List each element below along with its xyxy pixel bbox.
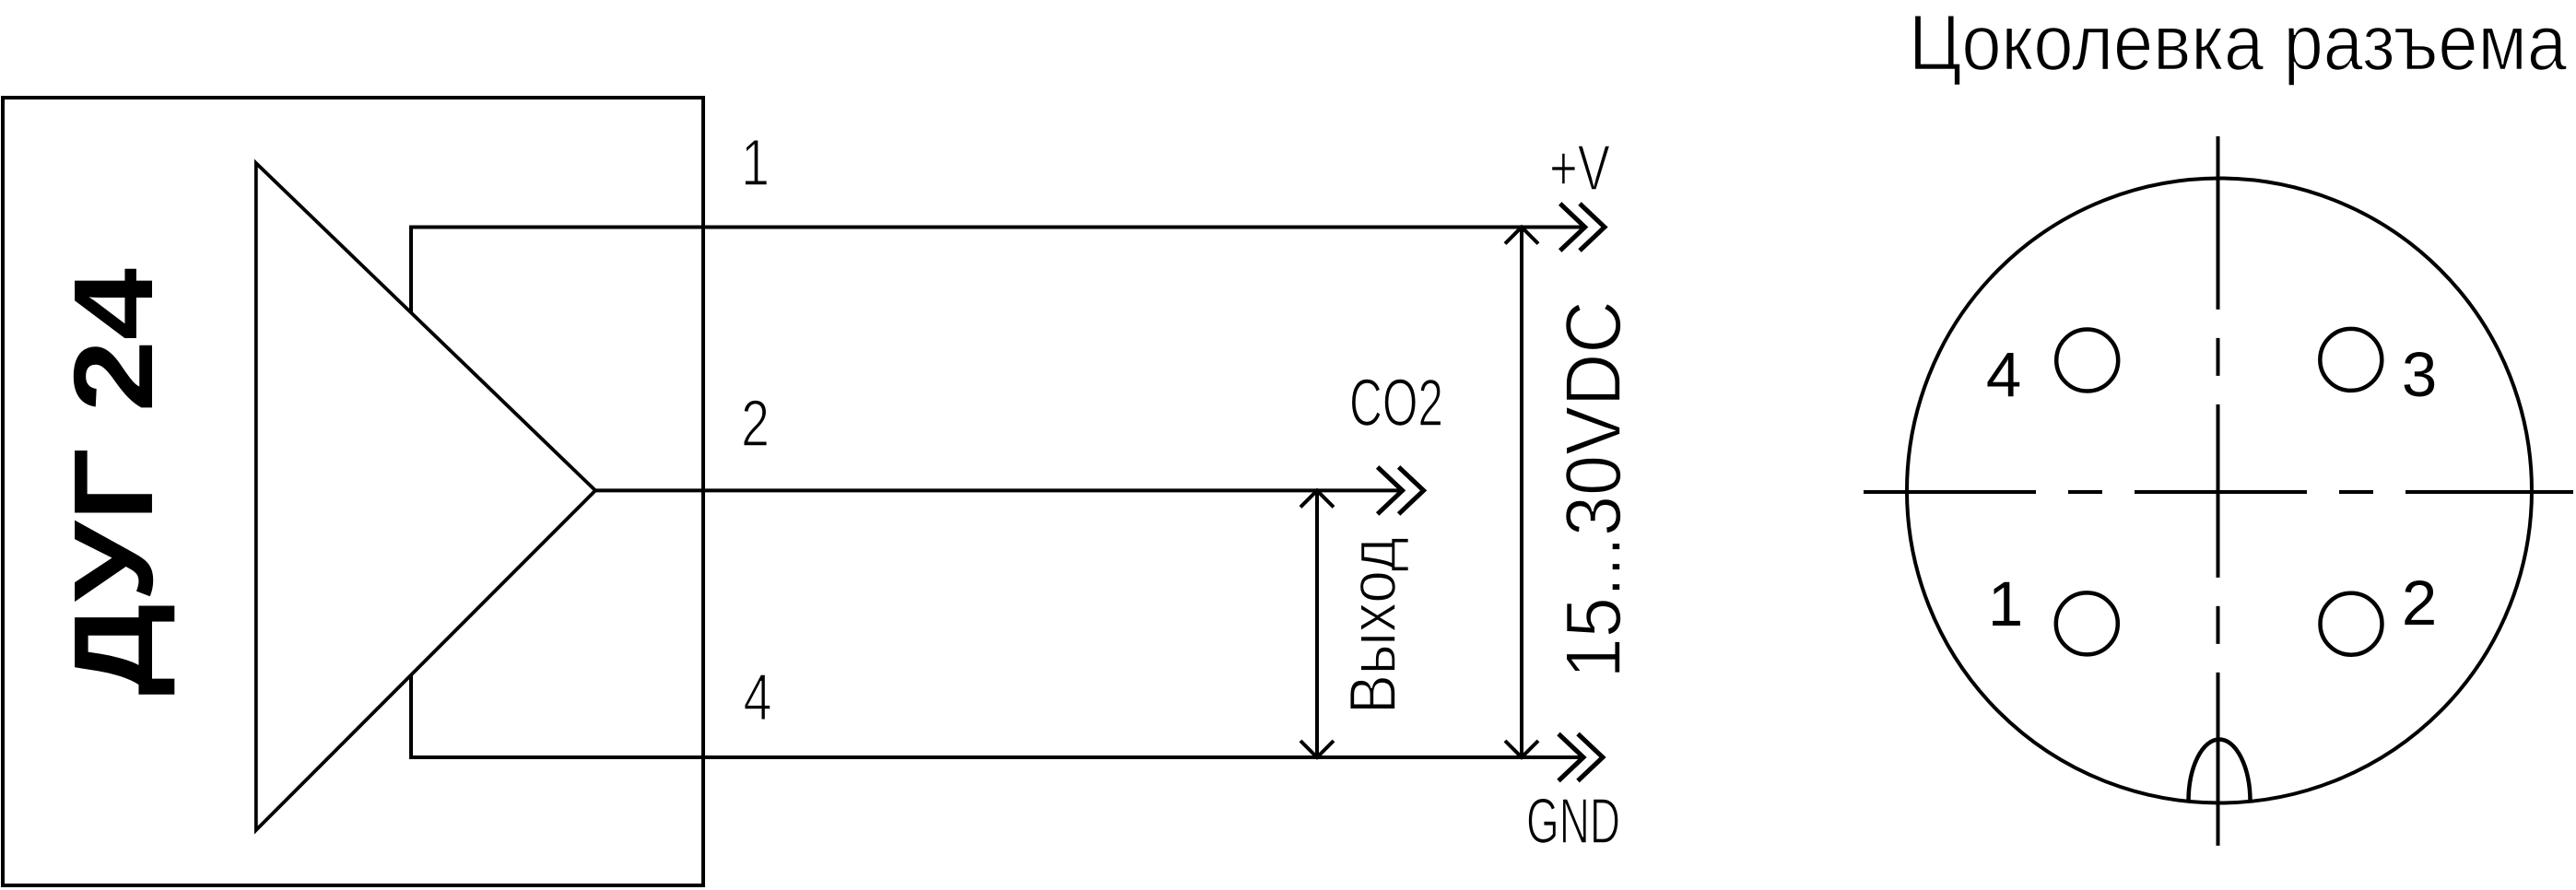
horizontal centerline bbox=[1864, 490, 2573, 494]
svg-text:+V: +V bbox=[1549, 132, 1610, 204]
svg-text:GND: GND bbox=[1526, 785, 1620, 857]
svg-text:4: 4 bbox=[1986, 339, 2021, 410]
title Цоколевка разъема bbox=[1909, 0, 2568, 88]
label +V bbox=[1549, 132, 1610, 204]
double chevron arrow GND bbox=[1559, 734, 1603, 781]
pin number 1 bbox=[741, 127, 770, 200]
connector pin label 2 bbox=[2402, 568, 2437, 638]
svg-text:2: 2 bbox=[2402, 568, 2437, 638]
connector pin label 3 bbox=[2402, 339, 2437, 410]
svg-text:15...30VDC: 15...30VDC bbox=[1550, 300, 1638, 678]
dimension line Выход (between wire 2 and wire 4) bbox=[1300, 490, 1334, 757]
connector pin label 4 bbox=[1986, 339, 2021, 410]
connector pin 2 hole bbox=[2321, 593, 2382, 655]
sensor enclosure box U1 bbox=[3, 98, 703, 885]
connector body circle bbox=[1907, 179, 2532, 803]
svg-text:Выход: Выход bbox=[1337, 537, 1410, 714]
label Выход bbox=[1337, 537, 1410, 714]
svg-text:1: 1 bbox=[741, 127, 770, 200]
connector pin 3 hole bbox=[2320, 329, 2382, 391]
label GND bbox=[1526, 785, 1620, 857]
svg-text:ДУГ 24: ДУГ 24 bbox=[51, 268, 176, 696]
double chevron arrow CO2 bbox=[1378, 467, 1424, 514]
dimension line 15...30VDC (between wire 1 and wire 4) bbox=[1505, 228, 1538, 758]
wire 2 (CO2 output) bbox=[595, 488, 1400, 492]
pin number 4 bbox=[744, 662, 772, 734]
label ДУГ 24 bbox=[51, 268, 176, 696]
keyway notch bbox=[2189, 739, 2251, 802]
connector pin 4 hole bbox=[2056, 330, 2118, 392]
wire 4 (GND) bbox=[411, 674, 1582, 757]
connector pin label 1 bbox=[1988, 568, 2023, 639]
vertical centerline bbox=[2217, 136, 2220, 848]
svg-text:3: 3 bbox=[2402, 339, 2437, 410]
double chevron arrow +V bbox=[1560, 204, 1605, 251]
connector pin 1 hole bbox=[2056, 592, 2118, 654]
transducer triangle bbox=[256, 163, 595, 830]
svg-text:Цоколевка разъема: Цоколевка разъема bbox=[1909, 0, 2568, 88]
svg-text:4: 4 bbox=[744, 662, 772, 734]
svg-text:1: 1 bbox=[1988, 568, 2023, 639]
label 15...30VDC bbox=[1550, 300, 1638, 678]
pin number 2 bbox=[741, 388, 770, 461]
svg-text:2: 2 bbox=[741, 388, 770, 461]
wire 1 (+V) bbox=[411, 228, 1582, 313]
svg-text:CO2: CO2 bbox=[1349, 367, 1443, 440]
label CO2 bbox=[1349, 367, 1443, 440]
